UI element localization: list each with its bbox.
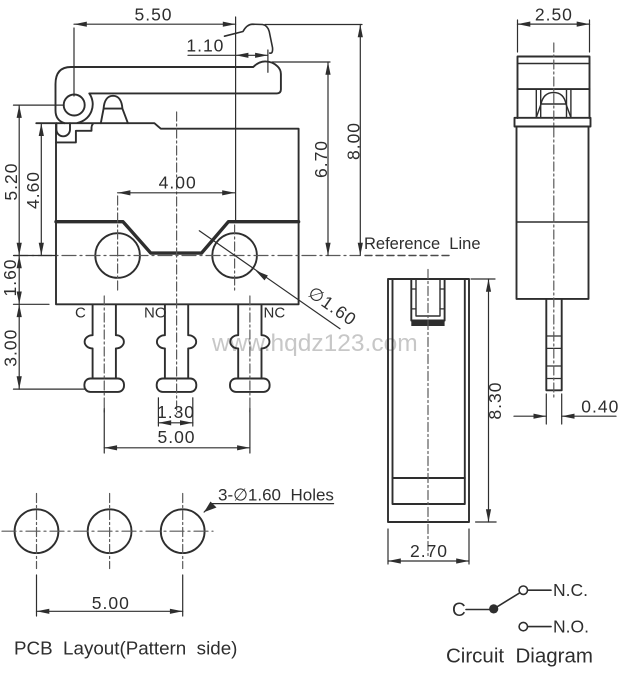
wire to N.C. label: [528, 589, 551, 591]
lever arm outline: [56, 61, 281, 123]
svg-text:3.00: 3.00: [1, 329, 21, 367]
dimension 5.50: [73, 28, 75, 96]
wire to N.O. label: [528, 626, 551, 628]
svg-text:5.00: 5.00: [92, 593, 130, 613]
lever pivot hole: [64, 95, 85, 116]
leader dia 1.60: [199, 231, 340, 329]
dimension 1.10: [267, 50, 269, 72]
dimension 8.00: [265, 24, 362, 26]
pin C: [85, 304, 93, 378]
U notch: [411, 279, 444, 321]
horizontal centerline / reference line: [14, 255, 360, 257]
switch blade to N.C.: [494, 593, 519, 609]
dimension 8.30: [471, 278, 495, 280]
svg-text:0.40: 0.40: [581, 397, 619, 417]
dimension 0.40: [545, 394, 547, 424]
dimension 5.00 pcb: [36, 575, 38, 616]
side centerline: [553, 43, 555, 398]
svg-text:4.60: 4.60: [23, 171, 43, 209]
right rivet circle: [212, 233, 257, 278]
svg-text:NO: NO: [144, 305, 167, 322]
dimension 1.60: [14, 255, 57, 257]
centerline left circle: [117, 196, 119, 292]
wire from C: [466, 609, 490, 611]
N.O. contact circle: [519, 622, 527, 630]
pin NC: [230, 304, 238, 378]
pin NO: [157, 304, 165, 378]
hole 2: [88, 509, 132, 553]
bottom view centerline: [427, 270, 429, 557]
svg-text:1.10: 1.10: [186, 36, 224, 56]
side body: [517, 127, 589, 299]
dimension 5.00 front: [103, 408, 105, 453]
inner walls: [393, 279, 465, 504]
bracket step below pivot: [56, 124, 93, 143]
plunger dome: [101, 96, 128, 123]
svg-text:www.hqdz123.com: www.hqdz123.com: [211, 330, 418, 357]
svg-text:2.70: 2.70: [410, 541, 448, 561]
svg-text:Reference Line: Reference Line: [364, 235, 481, 253]
svg-text:C: C: [75, 305, 86, 322]
bracket scallop bump: [56, 123, 70, 136]
left rivet circle: [95, 233, 140, 278]
bottom view outline: [388, 279, 469, 522]
side cap: [518, 57, 590, 90]
svg-text:5.20: 5.20: [1, 163, 21, 201]
svg-text:PCB Layout(Pattern side): PCB Layout(Pattern side): [14, 638, 237, 659]
centerline NO pin: [176, 112, 178, 414]
dimension 5.20: [14, 104, 65, 106]
svg-text:8.30: 8.30: [485, 382, 505, 420]
svg-text:N.C.: N.C.: [553, 580, 588, 600]
centerline right circle: [234, 225, 236, 292]
svg-text:NC: NC: [264, 305, 286, 322]
dimension 2.50: [517, 20, 519, 52]
dimension 3.00: [14, 303, 50, 305]
svg-text:6.70: 6.70: [311, 140, 331, 178]
side pin: [546, 299, 561, 390]
svg-text:1.30: 1.30: [157, 402, 195, 422]
pcb crosshair verticals: [36, 494, 38, 569]
svg-text:2.50: 2.50: [535, 5, 573, 25]
svg-text:C: C: [452, 600, 466, 621]
lever free-position phantom curve: [225, 24, 273, 53]
N.C. contact circle: [519, 586, 527, 594]
hole 1: [15, 509, 59, 553]
dimension 2.70: [387, 529, 389, 564]
side flange: [515, 118, 591, 127]
centerline NC pin: [249, 296, 251, 414]
dimension 4.00: [118, 192, 235, 194]
svg-text:5.00: 5.00: [157, 427, 195, 447]
leader 3-dia1.60 holes: [204, 504, 334, 512]
svg-text:N.O.: N.O.: [553, 617, 589, 637]
side mechanism section: [518, 89, 590, 118]
svg-text:8.00: 8.00: [344, 122, 364, 160]
common node dot: [489, 604, 498, 613]
centerline C pin: [103, 296, 105, 414]
svg-text:4.00: 4.00: [159, 173, 197, 193]
svg-text:Circuit Diagram: Circuit Diagram: [446, 645, 593, 668]
hole 3: [161, 509, 205, 553]
movable contact thick line: [56, 222, 299, 253]
dimension 4.60: [40, 123, 42, 255]
inner bottom band: [393, 477, 465, 479]
dimension 6.70: [272, 61, 330, 63]
dimension 1.30: [157, 398, 159, 426]
svg-text:3-∅1.60 Holes: 3-∅1.60 Holes: [218, 486, 334, 505]
pcb crosshair horizontal: [2, 530, 213, 532]
svg-text:1.60: 1.60: [0, 258, 20, 296]
body outline: [36, 123, 298, 304]
svg-text:5.50: 5.50: [134, 5, 172, 25]
